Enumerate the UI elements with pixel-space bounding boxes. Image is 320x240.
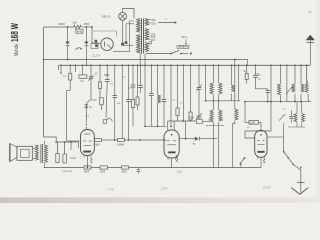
wire d157 bbox=[157, 65, 159, 95]
wire lamp to winding bbox=[123, 44, 134, 46]
filament box bbox=[91, 43, 98, 49]
switch blade1 bbox=[283, 151, 285, 153]
capacitor Cr-a bbox=[84, 166, 91, 169]
wire d133 bbox=[132, 65, 134, 85]
capacitor Cb267 bbox=[266, 89, 270, 91]
transformer T1 primary winding mid bbox=[145, 29, 149, 41]
node b151 bbox=[151, 65, 153, 67]
resistor Rg3 box bbox=[196, 119, 202, 123]
node b75 bbox=[75, 65, 77, 67]
node b157 bbox=[157, 65, 159, 67]
wire lamp top bracket bbox=[123, 9, 134, 19]
wire d231 bbox=[230, 65, 232, 85]
wire link3 bbox=[245, 101, 311, 103]
wire speaker bottom bbox=[32, 158, 35, 160]
wire d171 bbox=[170, 65, 172, 126]
wire d82 bbox=[82, 65, 84, 75]
filament loop wire bbox=[93, 31, 117, 37]
wire d199 bbox=[198, 65, 200, 86]
cathode bar V2 bbox=[83, 151, 91, 153]
erde terminal arrow bbox=[300, 166, 302, 168]
IF transformer L6a winding bbox=[292, 84, 295, 92]
node b280 bbox=[280, 65, 282, 67]
svg-text:168 W: 168 W bbox=[8, 23, 20, 42]
antenna terminal wire bbox=[309, 40, 311, 65]
wire V4 cathode return bbox=[233, 167, 261, 169]
wire d70 bbox=[69, 65, 71, 73]
svg-text:220: 220 bbox=[151, 22, 156, 26]
speaker LS cone bbox=[10, 143, 17, 161]
wire d151 bbox=[151, 65, 153, 93]
capacitor Cr-b bbox=[100, 166, 108, 169]
node b145 bbox=[144, 65, 146, 67]
earth crossbar bbox=[297, 182, 305, 184]
node on bus A bbox=[67, 59, 69, 61]
resistor Rg4 box bbox=[249, 121, 259, 125]
tap 110 bbox=[149, 39, 151, 41]
output transformer T2 core bbox=[40, 144, 42, 163]
node b171 bbox=[170, 65, 172, 67]
wire Rg4 right bbox=[259, 121, 262, 123]
oscillator coil L3 bbox=[231, 85, 234, 92]
tap 125 bbox=[149, 36, 151, 38]
wire d61 bbox=[60, 65, 62, 72]
svg-text:5000: 5000 bbox=[84, 172, 90, 174]
resistor Rb100a bbox=[98, 82, 101, 89]
node b122 bbox=[121, 65, 123, 67]
capacitor Cb255 bbox=[253, 74, 258, 76]
node b231 bbox=[231, 65, 233, 67]
bus A wire bbox=[44, 59, 248, 61]
capacitor Cb107 bbox=[105, 79, 110, 81]
coil L5 bbox=[278, 84, 281, 95]
node b107 bbox=[106, 65, 108, 67]
wire cross88 bbox=[255, 88, 267, 90]
resistor Ra2 bbox=[118, 139, 125, 142]
node b70 bbox=[69, 65, 71, 67]
IF transformer L1a winding bbox=[210, 83, 213, 94]
resistor Rb107 bbox=[103, 120, 106, 124]
svg-text:0,4M: 0,4M bbox=[250, 122, 255, 124]
trimmer arrow1 bbox=[286, 87, 292, 94]
svg-text:5000: 5000 bbox=[189, 118, 195, 120]
wire Rg3 right bbox=[202, 120, 213, 122]
transformer T1 core bbox=[141, 19, 143, 54]
node b133 bbox=[132, 65, 134, 67]
wire V3 bottom bbox=[171, 158, 173, 168]
wire to V3 grid bbox=[125, 139, 167, 141]
node b128 bbox=[128, 65, 130, 67]
node b218 bbox=[218, 65, 220, 67]
tap 240 bbox=[149, 19, 151, 21]
svg-text:2×8μF: 2×8μF bbox=[70, 157, 77, 160]
capacitor Cel3 coupling bbox=[195, 137, 199, 141]
capacitor Cvar2 tuning bbox=[197, 115, 202, 117]
wire left vertical bbox=[43, 27, 45, 137]
bus A corner drop bbox=[247, 60, 249, 66]
svg-text:500: 500 bbox=[84, 22, 89, 26]
wire d75 bbox=[75, 65, 77, 72]
IF transformer L2a winding bbox=[210, 110, 213, 121]
svg-text:0,2μ: 0,2μ bbox=[177, 172, 182, 174]
wire V2 bottom bbox=[86, 156, 88, 168]
oscillator coil L4 bbox=[235, 109, 238, 120]
node b238 bbox=[238, 65, 240, 67]
resistor Rb190 bbox=[189, 112, 192, 120]
tube V4 bbox=[255, 130, 267, 157]
wire d238 bbox=[238, 65, 240, 101]
node bus A left bbox=[43, 59, 45, 61]
resistor Rb70 bbox=[69, 74, 72, 81]
wire winding bottom left bbox=[139, 54, 141, 66]
pin square b bbox=[95, 45, 97, 47]
wire d306 bbox=[306, 65, 308, 84]
tap 150 bbox=[149, 33, 151, 35]
terminal square lamp bbox=[121, 43, 123, 45]
speaker LS magnet bbox=[17, 146, 32, 160]
antenna symbol bbox=[306, 35, 315, 40]
svg-text:1MΩ: 1MΩ bbox=[95, 144, 100, 147]
wire heater b bbox=[113, 21, 134, 52]
wire T2 top bbox=[43, 141, 45, 145]
svg-text:1,2 V: 1,2 V bbox=[93, 53, 101, 57]
wire blade to earth bbox=[293, 164, 301, 170]
hum potentiometer arrow bbox=[76, 48, 82, 50]
transformer T1 primary winding upper bbox=[145, 19, 149, 26]
earth symbol bbox=[291, 188, 308, 195]
wire bottom rail bbox=[44, 167, 84, 169]
wire V2 grid left bbox=[67, 140, 81, 142]
wire d78 bbox=[78, 142, 80, 148]
svg-text:8+4μ: 8+4μ bbox=[77, 30, 83, 33]
node b271 bbox=[270, 65, 272, 67]
capacitor C-el1 electrolytic bbox=[65, 42, 69, 45]
node b301 bbox=[300, 65, 302, 67]
capacitor Cb133 bbox=[131, 84, 136, 86]
capacitor below rail bbox=[138, 168, 140, 170]
svg-text:7 7 ß: 7 7 ß bbox=[107, 188, 114, 192]
coil L7 bbox=[305, 84, 308, 92]
wire link4 bbox=[288, 126, 305, 128]
trimmer arrow2 bbox=[279, 115, 284, 121]
wire d100 bbox=[99, 65, 101, 82]
wire d145 bbox=[144, 65, 146, 126]
node b199 bbox=[198, 65, 200, 67]
wire d301 bbox=[300, 65, 302, 84]
resistor Rsp1 bbox=[57, 142, 59, 154]
wire d213 bbox=[212, 65, 214, 83]
output transformer T2 secondary bbox=[35, 145, 38, 160]
title Mende 168 W bbox=[8, 23, 20, 56]
node b213 bbox=[213, 65, 215, 67]
IF transformer L6b winding bbox=[301, 84, 304, 92]
node b295 bbox=[294, 65, 296, 67]
fuse F1 bbox=[177, 46, 189, 49]
bus B wire bbox=[59, 64, 311, 66]
svg-text:1W: 1W bbox=[73, 21, 77, 25]
tube V4 pins bbox=[257, 157, 259, 159]
capacitor Cb114 bbox=[112, 95, 117, 97]
wire L4 to loop bbox=[233, 121, 235, 168]
cathode bar V4 bbox=[257, 151, 264, 153]
node b100 bbox=[99, 65, 101, 67]
wire d128 bbox=[128, 65, 130, 99]
terminal square heater bbox=[125, 42, 127, 44]
resistor Rk2 zigzag bbox=[91, 158, 93, 163]
wire V2 anode out bbox=[93, 139, 95, 141]
choke Lb157 bbox=[158, 95, 161, 103]
mains arrow lower bbox=[190, 52, 192, 55]
wire lamp bottom bbox=[122, 20, 124, 43]
wire d164 bbox=[163, 65, 165, 99]
wire heater a bbox=[126, 24, 134, 42]
capacitor Cr-c bbox=[122, 166, 129, 169]
wire elcap2 drop bbox=[85, 27, 87, 42]
wire to earth switch bbox=[283, 137, 285, 151]
IF transformer L8a winding bbox=[294, 113, 297, 121]
resistor Rk4 zigzag bbox=[263, 159, 265, 164]
IF transformer L2b winding bbox=[219, 110, 222, 121]
node b140 bbox=[140, 65, 142, 67]
svg-text:4/0,1: 4/0,1 bbox=[182, 35, 188, 39]
mains switch wire bbox=[146, 53, 171, 55]
wire d114 bbox=[114, 65, 116, 95]
wire V4 bottom bbox=[260, 157, 262, 167]
node b164 bbox=[163, 65, 165, 67]
wire link1 bbox=[206, 100, 241, 102]
tube V2 pins bbox=[83, 155, 85, 157]
resistor R-filter zigzag bbox=[74, 25, 82, 29]
wire earth vertical bbox=[300, 170, 302, 193]
node b137 bbox=[137, 65, 139, 67]
svg-text:5048 5062: 5048 5062 bbox=[62, 171, 73, 173]
wire B+ line bbox=[44, 26, 74, 28]
node b190 bbox=[190, 65, 192, 67]
wire V2 top bbox=[85, 103, 87, 122]
wire loop entry bbox=[185, 121, 187, 139]
wire elcap1 drop bbox=[67, 27, 69, 42]
mains arrow upper bbox=[158, 22, 175, 24]
wire d205 bbox=[205, 65, 207, 101]
wire d218 bbox=[218, 65, 220, 83]
wire speaker top bbox=[32, 148, 35, 150]
tube V2 bbox=[81, 130, 95, 156]
svg-text:B85 30: B85 30 bbox=[102, 15, 111, 19]
tap 0 square bbox=[149, 42, 151, 44]
wire d137 bbox=[137, 65, 139, 97]
wire Rg4 left bbox=[244, 102, 246, 123]
svg-text:E 2 F: E 2 F bbox=[264, 185, 271, 189]
node rail b bbox=[114, 166, 116, 168]
rectifier tube V1 bbox=[101, 38, 113, 50]
wire link2 bbox=[206, 125, 224, 127]
node b306 bbox=[306, 65, 308, 67]
wire d280 bbox=[280, 65, 282, 84]
wire winding bottom right bbox=[144, 54, 146, 66]
capacitor Cb151 bbox=[149, 93, 154, 95]
switch blade2 bbox=[288, 158, 293, 164]
resistor Rb82 bbox=[79, 75, 87, 78]
wire left L to speaker rail bbox=[44, 137, 57, 142]
wire d246 bbox=[246, 65, 248, 73]
capacitor Cb128 bbox=[126, 99, 131, 101]
wire d287 bbox=[286, 65, 288, 101]
node bus A drop bbox=[234, 59, 236, 61]
node b82 bbox=[82, 65, 84, 67]
resistor Rk3 zigzag bbox=[176, 156, 178, 162]
resistor Rb246 bbox=[245, 73, 248, 79]
resistor Rsp2 bbox=[64, 142, 66, 154]
node b183 bbox=[183, 65, 185, 67]
wire grid line y126 bbox=[145, 125, 166, 127]
capacitor Cb140 bbox=[138, 85, 143, 87]
output transformer T2 primary bbox=[44, 145, 47, 163]
wire d107 bbox=[106, 65, 108, 79]
node b246 bbox=[246, 65, 248, 67]
IF transformer L8b winding bbox=[302, 113, 305, 121]
node rail a bbox=[87, 167, 89, 169]
wire d255 bbox=[254, 65, 256, 75]
capacitor C-entry bars bbox=[85, 104, 88, 106]
svg-text:0,5M: 0,5M bbox=[91, 100, 96, 102]
wire d91 bbox=[90, 65, 92, 77]
node on bus B bbox=[86, 64, 88, 66]
wire to rectifier anode bbox=[91, 27, 93, 44]
wire V4 left lead bbox=[245, 102, 271, 138]
node J2 bbox=[86, 26, 88, 28]
bus B left stub bbox=[58, 65, 60, 70]
wire rsp3 bbox=[70, 142, 72, 150]
node b114 bbox=[114, 65, 116, 67]
transformer T1 primary winding lower bbox=[145, 43, 149, 52]
svg-text:434V: 434V bbox=[58, 22, 65, 26]
wire switch down bbox=[240, 164, 242, 168]
node b91 bbox=[90, 65, 92, 67]
wire speaker rail bbox=[56, 141, 78, 143]
wire V3 anode line bbox=[179, 138, 195, 140]
pot arc arrow bbox=[108, 119, 113, 122]
wire top bracket line bbox=[168, 120, 197, 122]
resistor Rb133 bbox=[131, 100, 134, 108]
svg-text:12: 12 bbox=[308, 10, 312, 14]
capacitor Cr1 bbox=[289, 115, 293, 117]
resistor Rb177 bbox=[176, 108, 179, 116]
pin square a bbox=[95, 40, 97, 42]
arrow fuse bbox=[185, 39, 187, 43]
wire d183 bbox=[183, 65, 185, 121]
node J3 bbox=[91, 26, 93, 28]
svg-text:0,1: 0,1 bbox=[81, 80, 85, 83]
tube V3 pins bbox=[167, 158, 169, 160]
transformer T1 secondary winding bbox=[137, 19, 141, 33]
wire d122 bbox=[121, 65, 123, 138]
wire d271 bbox=[270, 65, 272, 101]
wire d295 bbox=[294, 65, 296, 84]
svg-text:240: 240 bbox=[151, 18, 156, 22]
resistor Rb100b bbox=[100, 98, 104, 105]
capacitor C-el2 electrolytic bbox=[84, 42, 88, 45]
node b287 bbox=[286, 65, 288, 67]
tube V3 bbox=[164, 130, 179, 158]
node b61 bbox=[60, 65, 62, 67]
capacitor block 4u bbox=[76, 29, 83, 33]
svg-text:0,5MΩ: 0,5MΩ bbox=[117, 144, 124, 147]
cathode bar V3 bbox=[168, 151, 175, 153]
wire T2 bottom bbox=[43, 163, 45, 167]
wire V3 top bracket bbox=[167, 121, 169, 130]
wire drop from bus A bbox=[234, 60, 236, 110]
svg-text:5000: 5000 bbox=[100, 172, 106, 174]
node J1 bbox=[67, 26, 69, 28]
svg-text:5000: 5000 bbox=[122, 172, 128, 174]
node b205 bbox=[205, 65, 207, 67]
wire d140 bbox=[140, 65, 142, 85]
IF transformer L1b winding bbox=[219, 83, 222, 94]
svg-text:L 2 F: L 2 F bbox=[161, 187, 168, 191]
resistor Ra1 bbox=[95, 139, 102, 142]
node b255 bbox=[255, 65, 257, 67]
wire d190 bbox=[190, 65, 192, 112]
resistor Rb137 bbox=[136, 97, 139, 105]
wire col283 bbox=[283, 123, 285, 137]
switch S1 blade bbox=[170, 53, 172, 55]
capacitor Cb91 trimmer bbox=[89, 76, 94, 78]
dial lamp La bbox=[119, 12, 127, 20]
wave switch Sk bbox=[244, 157, 246, 159]
svg-text:Mende: Mende bbox=[13, 43, 20, 56]
tap 220 bbox=[149, 22, 151, 24]
node b177 bbox=[177, 65, 179, 67]
capacitor Cvar1 tuning bbox=[197, 87, 202, 89]
wire d177 bbox=[177, 65, 179, 108]
svg-text:5000: 5000 bbox=[104, 74, 110, 77]
capacitor Cb164 bbox=[162, 99, 167, 101]
